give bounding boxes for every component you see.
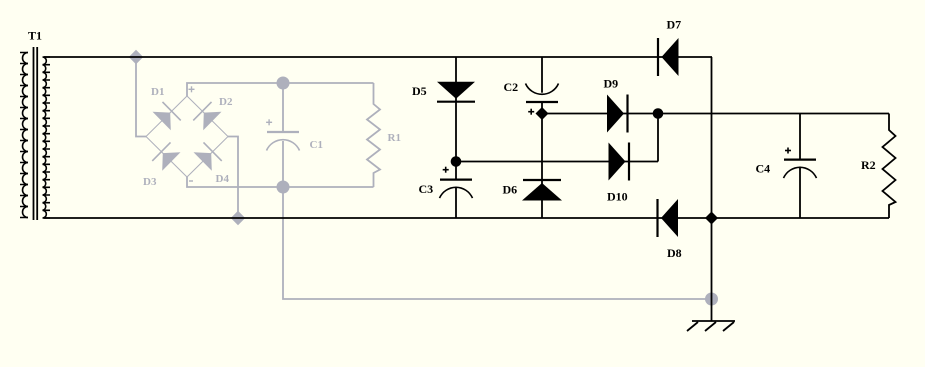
minus sign bridge - output [189,180,193,182]
plus sign bridge + output [189,86,195,92]
capacitor C3 (polarized) [440,180,473,199]
plus sign C2 [528,109,534,115]
wire output rail (C2 node to R2) [542,113,889,115]
svg-text:D8: D8 [667,246,682,260]
wire from top rail junction down to bridge left corner [136,57,146,137]
wire C2/D6 branch vertical top stub [541,57,543,93]
wire top rail [44,56,712,58]
transformer T1 secondary winding [43,57,51,218]
wire bridge right corner to bottom rail [228,137,238,219]
diode D3 (bridge) [152,142,180,170]
svg-text:R1: R1 [388,132,401,144]
node junction dot D5/C3/D10 [451,156,462,167]
bridge diamond edges [146,96,228,177]
wire bridge - corner to gray bottom rail [187,177,374,187]
node junction diamond D8/ground [705,212,718,225]
diode D10 [609,143,630,181]
svg-text:C2: C2 [504,80,519,94]
transformer T1 core [34,47,38,220]
svg-text:C3: C3 [419,182,434,196]
diode D9 [607,95,628,133]
svg-text:D9: D9 [604,77,619,91]
svg-text:D10: D10 [607,190,628,204]
node junction dot D9 cathode [653,108,664,119]
svg-text:T1: T1 [28,29,42,43]
diode D5 [437,82,475,102]
svg-text:D1: D1 [151,86,164,98]
wire middle horizontal row (junction to D10) [456,161,658,163]
svg-text:D3: D3 [143,176,157,188]
diode D7 [658,38,679,76]
resistor R1 [367,83,380,187]
node junction diamond on bottom rail (bridge AC2) [231,211,245,225]
wire C1 bottom down and right to ground node [283,187,712,299]
node junction dot C1 bottom [277,181,290,194]
svg-text:D7: D7 [667,18,682,32]
diode D1 (bridge) [153,102,181,130]
svg-text:D4: D4 [216,173,230,185]
diode D8 [658,199,679,237]
capacitor C4 (polarized) [784,114,817,218]
node junction dot C1 top [277,77,290,90]
wire C2 plate down through D6 to bottom rail [541,102,543,218]
plus sign C1 [266,119,272,125]
svg-text:D2: D2 [219,96,233,108]
diode D2 (bridge) [193,102,221,130]
transformer T1 primary winding [20,53,28,218]
svg-text:C4: C4 [756,162,771,176]
svg-text:R2: R2 [861,158,876,172]
diode D4 (bridge) [194,142,222,170]
wire C3 arc to bottom rail [455,187,457,218]
plus sign C4 [785,148,791,154]
svg-text:D6: D6 [503,183,518,197]
capacitor C1 (polarized) [267,83,300,187]
node junction diamond on top rail (bridge AC1) [129,50,143,64]
wire right vertical from D7 to bottom rail [711,57,713,218]
resistor R2 [883,114,896,219]
node junction dot at ground wire [705,293,718,306]
capacitor C2 (polarized, flipped) [526,84,559,103]
plus sign C3 [443,167,449,173]
ground symbol [687,321,735,331]
wire bridge + corner to gray top rail [187,83,374,96]
wire D10 cathode up to D9 output node [657,114,659,162]
wire D5/C3 branch vertical upper [455,57,457,180]
node junction diamond C2/D9 [536,107,549,120]
svg-text:C1: C1 [310,139,323,151]
diode D6 [522,180,562,201]
wire ground stem [711,218,713,321]
svg-text:D5: D5 [412,84,427,98]
wire bottom rail [44,217,889,219]
